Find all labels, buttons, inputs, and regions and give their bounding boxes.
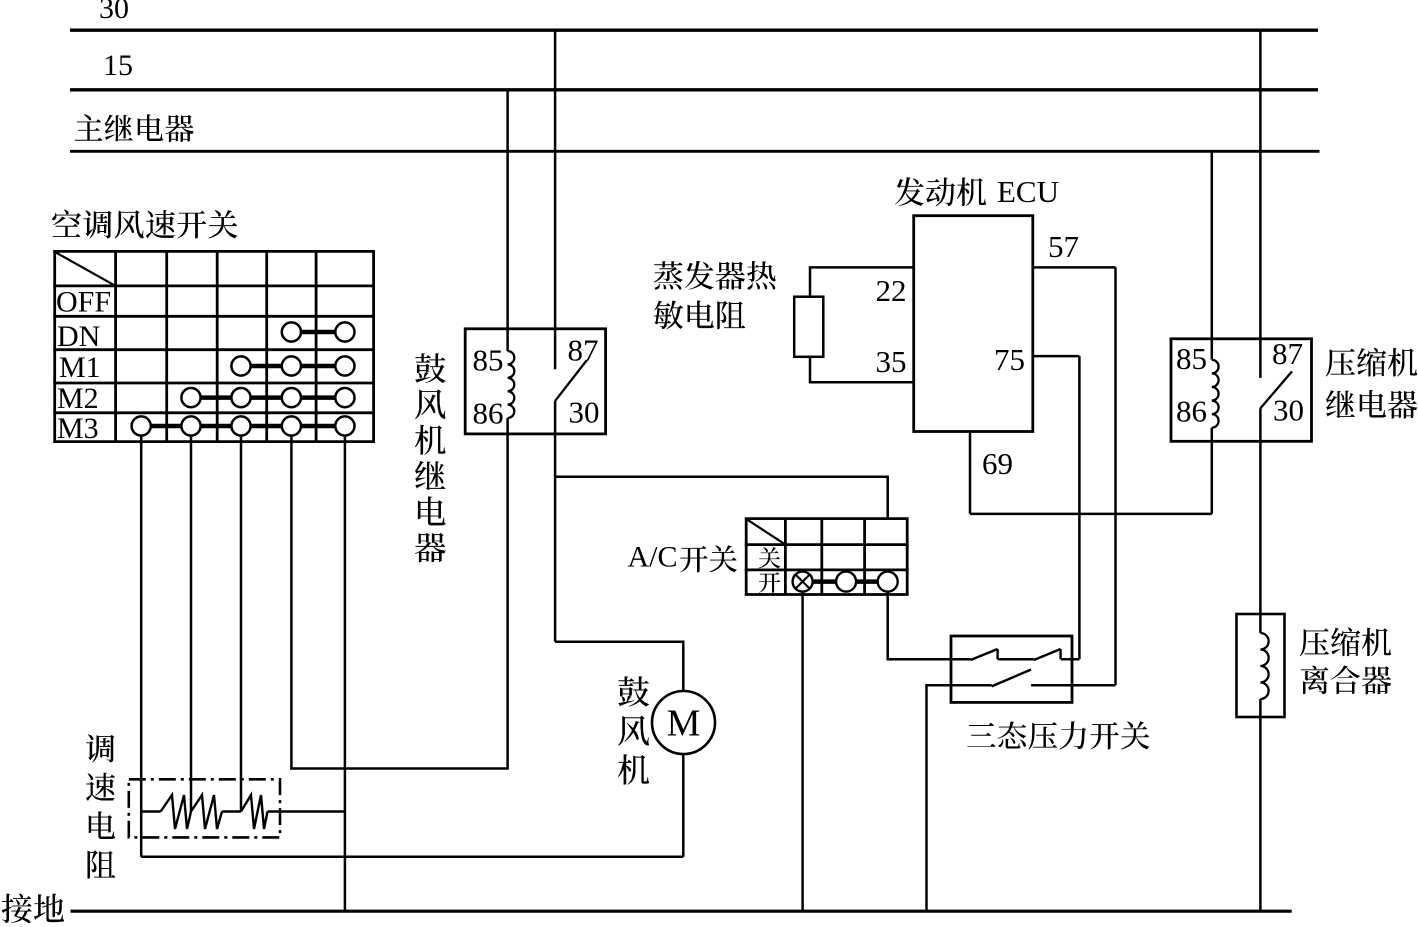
fan speed switch header diagonal xyxy=(56,252,116,286)
power bus 15 wire xyxy=(70,88,1318,91)
blower relay coil xyxy=(508,351,515,418)
main relay bus label 主继电器 xyxy=(75,114,194,142)
wire compressor relay 30 to clutch xyxy=(1259,408,1262,633)
engine ECU box xyxy=(914,216,1033,432)
row label OFF xyxy=(56,286,111,319)
blower motor letter M xyxy=(667,703,701,745)
blower relay pin label 86 xyxy=(473,396,504,431)
svg-text:85: 85 xyxy=(473,343,504,378)
wire switch terminal 3 to resistor tap 2 xyxy=(240,435,243,812)
svg-text:DN: DN xyxy=(57,320,100,353)
svg-text:75: 75 xyxy=(994,342,1025,377)
wire resistor chain output to terminal-5 line xyxy=(268,810,345,813)
compressor clutch label 压缩机离合器 xyxy=(1300,627,1391,694)
wire bus30 to compressor relay contact 87 xyxy=(1259,30,1262,378)
compressor relay pin label 85 xyxy=(1176,341,1207,376)
compressor relay pin label 30 xyxy=(1273,393,1304,428)
wire bus15 to blower relay coil 85 xyxy=(506,90,509,351)
ECU pin 69 wire down xyxy=(969,432,972,514)
compressor clutch box xyxy=(1237,614,1285,717)
svg-text:69: 69 xyxy=(982,446,1013,481)
wire motor top xyxy=(682,641,685,692)
compressor relay label 压缩机继电器 xyxy=(1326,348,1417,419)
svg-text:M1: M1 xyxy=(59,351,101,384)
wire switch terminal 5 to ground xyxy=(344,435,347,911)
wire between pressure contacts xyxy=(998,658,1034,661)
engine ECU label 发动机 ECU xyxy=(895,174,1059,209)
A/C switch contact terminal 2 xyxy=(836,572,856,592)
wire ECU 69 to compressor relay coil 86 xyxy=(970,513,1212,516)
speed resistor enclosure (dash-dot box) xyxy=(129,779,280,837)
compressor relay pin label 86 xyxy=(1176,393,1207,428)
resistor R1 xyxy=(161,795,191,829)
power bus 15 (ignition) label xyxy=(103,49,133,82)
ground bus wire xyxy=(71,910,1292,913)
ECU pin label 69 xyxy=(982,446,1013,481)
wire switch terminal 4 down xyxy=(290,435,293,770)
speed resistor label 调速电阻 xyxy=(86,734,115,878)
svg-text:86: 86 xyxy=(1176,393,1207,428)
wire R2 to R3 (tap 2) xyxy=(222,810,241,813)
compressor clutch coil L1 xyxy=(1260,633,1268,699)
row label M2 xyxy=(57,382,99,415)
compressor relay coil xyxy=(1212,360,1219,428)
blower motor M circle xyxy=(652,691,715,754)
wire motor bypass (M3 direct) xyxy=(141,855,683,858)
svg-text:30: 30 xyxy=(99,0,129,25)
fan speed switch label 空调风速开关 xyxy=(52,210,237,239)
switch contacts row M2 (terminals 2-5) xyxy=(181,388,354,407)
wire clutch to ground xyxy=(1259,699,1262,911)
svg-text:15: 15 xyxy=(103,49,133,82)
fan speed switch S1 grid xyxy=(53,251,375,441)
compressor relay pin label 87 xyxy=(1272,336,1303,371)
wire relay30 branch to A/C switch xyxy=(555,475,888,478)
wire blower relay coil 86 down xyxy=(506,418,509,770)
svg-text:57: 57 xyxy=(1048,229,1079,264)
wire ECU 57 down to pressure switch xyxy=(1114,267,1117,685)
resistor R3 xyxy=(241,795,268,829)
svg-text:87: 87 xyxy=(1272,336,1303,371)
svg-text:85: 85 xyxy=(1176,341,1207,376)
pressure switch contact 2 blade xyxy=(1034,649,1061,660)
ECU pin label 75 xyxy=(994,342,1025,377)
blower relay pin label 30 xyxy=(569,394,600,429)
svg-text:OFF: OFF xyxy=(56,286,111,319)
pressure switch contact 3 blade xyxy=(992,670,1032,687)
wire compressor relay coil 86 down xyxy=(1211,428,1214,514)
resistor R2 xyxy=(191,795,222,829)
blower relay contact blade xyxy=(555,360,587,401)
A/C switch indicator lamp xyxy=(793,572,813,592)
switch contacts row DN (terminals 4-5) xyxy=(282,322,355,341)
svg-text:30: 30 xyxy=(1273,393,1304,428)
wire relay30 to motor top xyxy=(555,640,683,643)
compressor relay contact blade xyxy=(1260,371,1292,408)
wire resistor chain input xyxy=(141,810,160,813)
svg-text:22: 22 xyxy=(876,273,907,308)
A/C switch row label 关 (off) xyxy=(759,547,781,568)
switch contacts row M3 (terminals 1-5) xyxy=(132,416,355,435)
wire bus30 to blower relay contact 87 xyxy=(554,30,557,369)
wire motor bottom to bypass xyxy=(682,754,685,857)
svg-text:87: 87 xyxy=(568,333,599,368)
ECU pin label 57 xyxy=(1048,229,1079,264)
svg-text:35: 35 xyxy=(876,344,907,379)
blower relay K1 box xyxy=(465,329,605,434)
wire pressure switch bottom row in xyxy=(925,684,991,687)
svg-text:M: M xyxy=(667,703,701,745)
wire ECU 75 down to pressure switch xyxy=(1078,356,1081,659)
wire thermistor top to ECU 22 xyxy=(809,267,914,296)
svg-text:ECU: ECU xyxy=(997,174,1059,209)
A/C switch label xyxy=(628,541,738,574)
main relay bus wire xyxy=(70,150,1320,153)
pressure switch contact 1 blade xyxy=(971,649,998,660)
ground label 接地 xyxy=(2,894,64,923)
row label M1 xyxy=(59,351,101,384)
blower relay label 鼓风机继电器 xyxy=(415,353,446,562)
wire A/C switch terminal 3 to pressure switch xyxy=(887,592,971,660)
power bus 30 wire xyxy=(70,29,1318,32)
wire pressure switch top row out xyxy=(1061,658,1080,661)
svg-text:86: 86 xyxy=(473,396,504,431)
wire pressure switch bottom row out xyxy=(1031,684,1115,687)
blower relay pin label 87 xyxy=(568,333,599,368)
wire pressure switch bottom left to ground xyxy=(925,685,928,911)
wire A/C lamp to ground xyxy=(801,592,804,912)
wire switch terminal 4 to blower relay coil 86 xyxy=(290,767,507,770)
svg-text:A/C: A/C xyxy=(628,541,678,574)
evaporator thermistor RT body xyxy=(794,297,823,357)
pressure switch S3 box xyxy=(951,636,1072,702)
power bus 30 (battery +) label xyxy=(99,0,129,25)
svg-text:M3: M3 xyxy=(57,412,99,445)
wire thermistor bottom to ECU 35 xyxy=(809,357,914,383)
pressure switch label 三态压力开关 xyxy=(967,721,1149,749)
wire down to A/C switch terminal 3 xyxy=(886,476,889,519)
A/C switch row label 开 (on) xyxy=(759,572,780,593)
A/C switch header diagonal xyxy=(747,520,785,545)
svg-text:M2: M2 xyxy=(57,382,99,415)
ECU pin label 22 xyxy=(876,273,907,308)
row label M3 xyxy=(57,412,99,445)
ECU pin 75 wire xyxy=(1033,355,1080,358)
svg-text:30: 30 xyxy=(569,394,600,429)
wire switch terminal 1 to resistor chain / motor bypass xyxy=(140,435,143,857)
row label DN xyxy=(57,320,100,353)
ECU pin label 35 xyxy=(876,344,907,379)
blower motor label 鼓风机 xyxy=(618,676,649,784)
A/C switch contact bridge xyxy=(803,579,888,584)
evaporator thermistor label 蒸发器热敏电阻 xyxy=(654,261,776,329)
blower relay pin label 85 xyxy=(473,343,504,378)
ECU pin 57 wire xyxy=(1033,266,1116,269)
wire main relay bus to compressor relay coil 85 xyxy=(1211,151,1214,359)
wire switch terminal 2 to resistor tap 1 xyxy=(190,435,193,812)
wire blower relay 30 down xyxy=(554,401,557,642)
A/C switch S2 grid xyxy=(745,519,909,595)
A/C switch contact terminal 3 xyxy=(878,572,898,592)
switch contacts row M1 (terminals 3-5) xyxy=(231,356,354,375)
compressor relay K2 box xyxy=(1171,339,1312,442)
